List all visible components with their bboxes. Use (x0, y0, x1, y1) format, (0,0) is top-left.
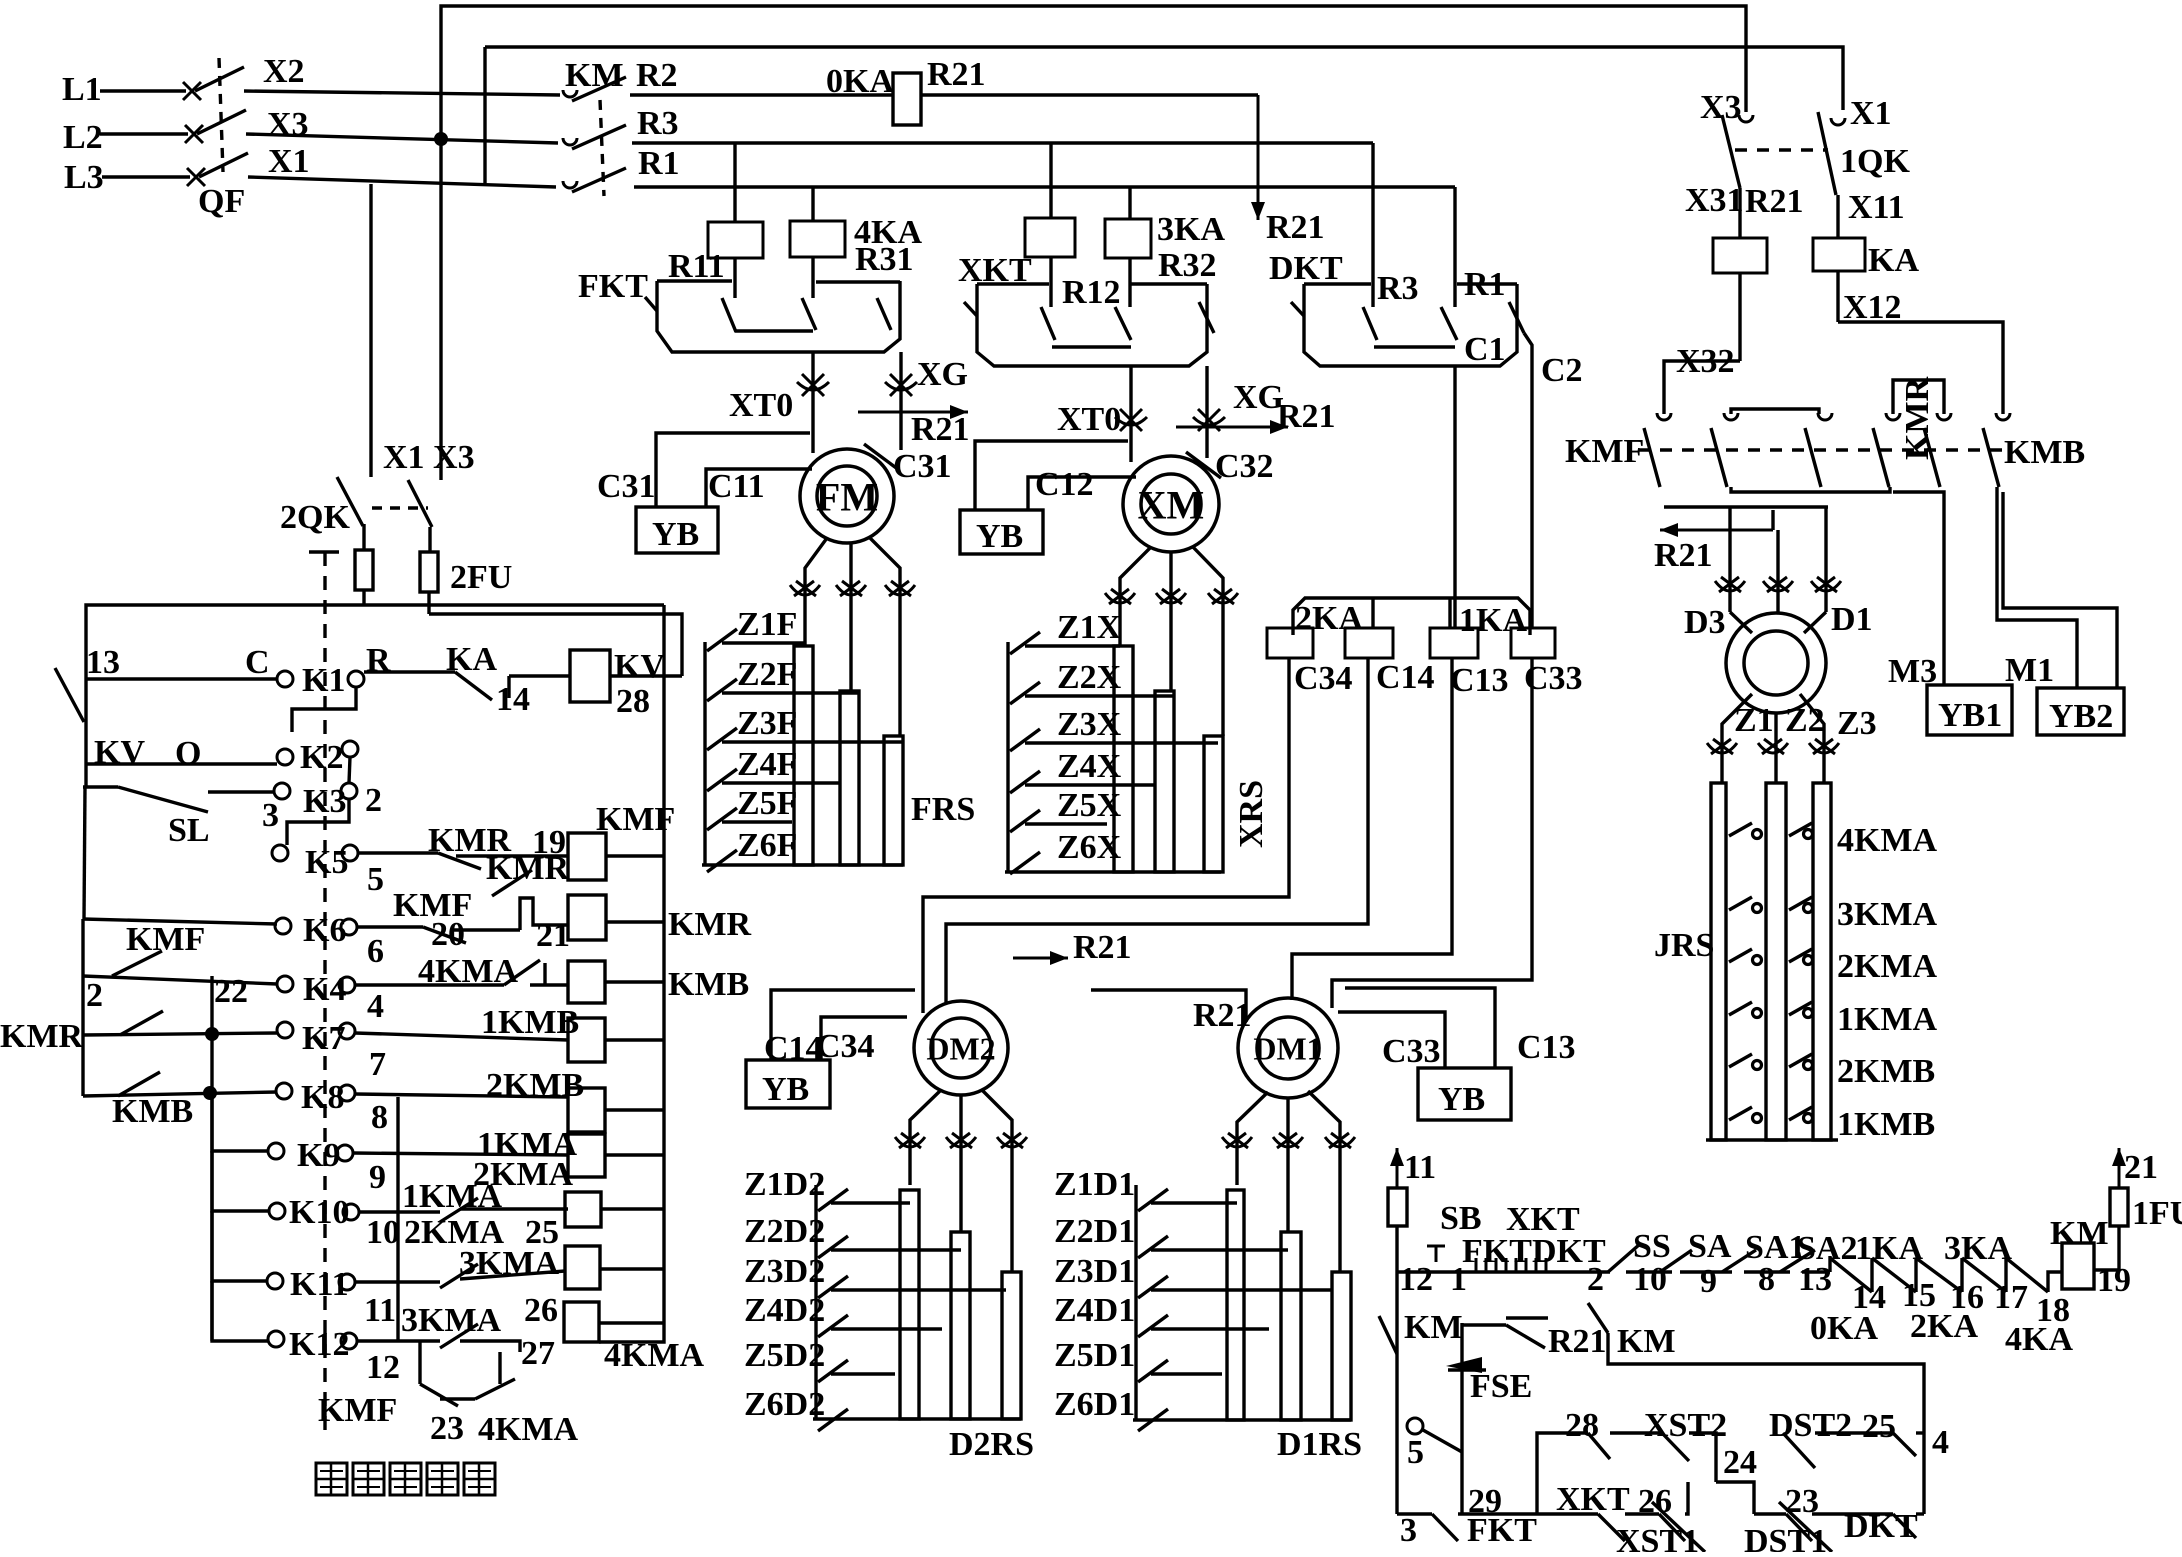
contact Z5F arm (707, 808, 737, 830)
label C13 (DM1) (1517, 1029, 1576, 1066)
contact Z2X arm (1010, 682, 1040, 704)
svg-text:KMF: KMF (318, 1392, 397, 1429)
wire C13 route (1292, 658, 1452, 1000)
wire FM column left (811, 352, 814, 453)
svg-text:O: O (175, 735, 201, 772)
contact KMF arm (K6) (423, 927, 466, 943)
svg-text:20: 20 (431, 916, 465, 953)
brush mark DM2 out (946, 1133, 976, 1148)
label 4KMA (coil) (604, 1337, 705, 1374)
wire R21 branch (1460, 1323, 1463, 1514)
wire K5 out (358, 851, 438, 854)
wire K2 to K3 (349, 757, 350, 783)
contact KMR arm (K5) (438, 853, 481, 869)
svg-text:X3: X3 (267, 106, 309, 143)
contact 3KMA terminal (1753, 904, 1762, 913)
contact DST2 arm (1783, 1433, 1815, 1468)
contactor KMF link dashed (1638, 448, 2010, 451)
wire 26 to 24 (1685, 1482, 1688, 1514)
svg-text:KV: KV (614, 648, 665, 685)
label X11 (1848, 189, 1905, 226)
svg-text:22: 22 (214, 973, 248, 1010)
svg-text:DST2: DST2 (1769, 1407, 1852, 1444)
wire KMB col to YB2 outer (2003, 492, 2117, 688)
resistor JRS col2 (1766, 783, 1786, 1140)
wire C1 column (1453, 366, 1456, 628)
wire XM out3 (1192, 546, 1223, 736)
label X32 (1676, 343, 1735, 380)
contact KMR arm (left) (120, 1011, 163, 1035)
svg-text:YB1: YB1 (1938, 697, 2002, 734)
svg-text:KM: KM (565, 57, 624, 94)
contact Z6F arm (707, 850, 737, 872)
label 28 (616, 683, 650, 720)
label K12 (289, 1326, 349, 1363)
wire Z2F step (722, 691, 858, 694)
brush mark DM1 out (1325, 1133, 1355, 1148)
label K9 (297, 1137, 340, 1174)
label C31 right (FM) (893, 448, 952, 485)
label 4 (br) (1932, 1424, 1949, 1461)
contact Z3D1 arm (1138, 1276, 1168, 1298)
contact SA1 arm (1780, 1250, 1815, 1272)
label Z2D2 (744, 1213, 825, 1250)
wire Z2D1 step (1151, 1248, 1288, 1251)
svg-text:3: 3 (262, 797, 279, 834)
resistor XRS col3 (1204, 736, 1223, 872)
breaker QF pole 2 arm (197, 110, 246, 134)
label KV (coil) (614, 648, 665, 685)
svg-text:2: 2 (365, 782, 382, 819)
label K5 (305, 844, 348, 881)
svg-text:C1: C1 (1464, 331, 1506, 368)
terminal K6 right (341, 919, 357, 935)
label KM (branch) (1404, 1309, 1463, 1346)
wire K7 out (355, 1033, 568, 1040)
relay coil 25 (565, 1192, 601, 1227)
label R3 (DKT) (1377, 270, 1419, 307)
svg-text:5: 5 (1407, 1434, 1424, 1471)
wire after DKT (1626, 1270, 1672, 1273)
svg-text:R21: R21 (1548, 1323, 1607, 1360)
wire bottom row c (1625, 1512, 1659, 1515)
resistor bank JRS bottom (1706, 1138, 1838, 1141)
wire K8 out (355, 1094, 568, 1097)
label L1 (62, 71, 102, 108)
wire C33 route (1332, 658, 1532, 1008)
wire 26 coil stub (600, 1267, 663, 1270)
label XG (XM) (1233, 379, 1284, 416)
relay coil 26 (565, 1246, 600, 1289)
wire R11 coil drop (733, 258, 736, 298)
wire DST2 row (1815, 1431, 1893, 1434)
svg-text:8: 8 (1758, 1261, 1775, 1298)
contact 2KMA arm (1789, 949, 1812, 962)
svg-text:9: 9 (1700, 1263, 1717, 1300)
wire C14 route (946, 658, 1368, 1004)
time relay DKT bracket top-left (1304, 282, 1371, 285)
wire 11 arrow (1390, 1148, 1404, 1188)
contact KMF arm (left) (112, 951, 162, 976)
motor DM2 (914, 1001, 1008, 1095)
svg-text:19: 19 (532, 824, 566, 861)
contact Z5X arm (1010, 810, 1040, 832)
contactor KM pole 2 arm (572, 125, 626, 149)
label C14 (1376, 659, 1435, 696)
svg-text:K9: K9 (297, 1137, 340, 1174)
svg-text:KMB: KMB (2004, 434, 2085, 471)
relay coil C33 (1511, 628, 1555, 658)
svg-text:Z5D1: Z5D1 (1054, 1337, 1135, 1374)
time relay DKT bracket lead (1291, 302, 1304, 316)
svg-text:C14: C14 (1376, 659, 1435, 696)
wire R3 (632, 141, 1373, 144)
wire KMR to K7 (83, 1033, 277, 1035)
svg-text:Z1D1: Z1D1 (1054, 1166, 1135, 1203)
terminal K4 right (339, 977, 355, 993)
label R21 (DM2) (1073, 929, 1132, 966)
wire K4 to KMB coil (530, 983, 568, 986)
svg-text:FM: FM (816, 474, 878, 519)
terminal K3 right (341, 783, 357, 799)
label XG (FM) (917, 356, 968, 393)
wire X2 (244, 91, 560, 95)
resistor JRS col1 (1711, 783, 1726, 1140)
resistor JRS col3 (1813, 783, 1831, 1140)
svg-text:Z2D2: Z2D2 (744, 1213, 825, 1250)
contact XST1 cross (1652, 1502, 1705, 1552)
wire SA1 row (1744, 1270, 1790, 1273)
svg-text:X1: X1 (1850, 95, 1892, 132)
svg-text:3KA: 3KA (1157, 211, 1225, 248)
contact 2KMB arm (1729, 1054, 1752, 1067)
contact 3KA arm (1962, 1258, 2006, 1292)
contact DST1 cross (1779, 1502, 1832, 1552)
label 19 (532, 824, 566, 861)
wire Z3F step (722, 740, 903, 743)
contactor KMB arm (1983, 428, 1999, 487)
time relay DKT contact 1 arm (1363, 307, 1377, 340)
relay coil 1KMA/2KMA (568, 1134, 605, 1177)
terminal K1 left (277, 671, 293, 687)
svg-text:D1: D1 (1831, 601, 1873, 638)
svg-text:C32: C32 (1215, 448, 1274, 485)
contact XST2 arm (1662, 1433, 1689, 1461)
svg-text:Z4F: Z4F (737, 746, 797, 783)
wire D3 in3 (1824, 507, 1827, 612)
resistor XRS col1 (1114, 646, 1133, 872)
wire X3 drop (2QK) (439, 139, 442, 480)
wire X11 (1836, 195, 1839, 238)
terminal K10 left (269, 1203, 285, 1219)
brush mark XM out (1208, 589, 1238, 604)
label SA2 (1797, 1230, 1857, 1267)
label FSE (1470, 1368, 1532, 1405)
wire KMF coil stub (606, 854, 663, 857)
svg-text:KM: KM (2050, 1215, 2109, 1252)
wire D3 in1 (1728, 507, 1731, 612)
contact 25 arm (1893, 1433, 1916, 1456)
wire R21 NC bar (1506, 1316, 1548, 1319)
resistor D2RS col2 (951, 1232, 970, 1419)
wire XM column right (1205, 366, 1208, 458)
label XT0 (XM) (1057, 401, 1121, 438)
wire bottom row (1397, 1512, 1432, 1515)
relay coil 3KA-2 (1105, 219, 1151, 258)
wire Z4F step (722, 781, 839, 784)
label C2 (1541, 352, 1583, 389)
svg-text:YB: YB (762, 1071, 809, 1108)
svg-text:2KA: 2KA (1910, 1308, 1978, 1345)
contactor KM pole 1 arm (572, 77, 626, 101)
label K4 (303, 971, 346, 1008)
contact KMR arm (K6b) (492, 870, 532, 896)
svg-text:Z3D2: Z3D2 (744, 1253, 825, 1290)
wire Z2X step (1025, 694, 1173, 697)
contact 3KMA terminal (1804, 904, 1813, 913)
svg-text:Z6X: Z6X (1057, 829, 1122, 866)
wire X32 route (1664, 361, 1740, 414)
relay coil KMF (568, 833, 606, 880)
label Z3F (737, 705, 797, 742)
wire fuse to 12 (1395, 1226, 1398, 1272)
label 5 (K5) (367, 861, 384, 898)
terminal K4 left (277, 976, 293, 992)
wire 2KMB coil stub (605, 1108, 663, 1111)
svg-text:R21: R21 (911, 411, 970, 448)
wire top frame lower drop (483, 47, 486, 183)
svg-text:2: 2 (86, 977, 103, 1014)
resistor FRS col2 (840, 691, 859, 865)
wire 28 branch (1537, 1433, 1588, 1514)
svg-text:0KA: 0KA (826, 63, 894, 100)
label XRS (1233, 780, 1270, 848)
label 13 (86, 644, 120, 681)
label R3 (637, 105, 679, 142)
svg-text:1FU: 1FU (2132, 1195, 2182, 1232)
time relay FKT bracket lead (645, 297, 657, 311)
label 24 (1723, 1444, 1757, 1481)
wire 1KMB coil stub (605, 1038, 663, 1041)
svg-text:D2RS: D2RS (949, 1426, 1034, 1463)
svg-text:R12: R12 (1062, 274, 1121, 311)
resistor bank FRS bottom (702, 863, 903, 866)
label K8 (301, 1079, 344, 1116)
wire 2QK out1 (362, 524, 365, 550)
label K7 (302, 1020, 345, 1057)
wire KMR col to YB1 (1893, 492, 1944, 685)
label 1KMB (JRS) (1837, 1106, 1935, 1143)
label Z5X (1057, 787, 1122, 824)
label C33 (DM1) (1382, 1033, 1441, 1070)
time relay FKT mid bar (735, 329, 813, 332)
contactor KMR pole 1 terminal (1886, 413, 1900, 420)
svg-text:1KA: 1KA (1459, 602, 1527, 639)
svg-text:2KMA: 2KMA (1837, 948, 1938, 985)
wire Z1X step (1025, 644, 1120, 647)
time relay FKT bracket outline (657, 281, 900, 352)
wire R3 drop (1371, 143, 1374, 307)
label Z3D2 (744, 1253, 825, 1290)
svg-text:XT0: XT0 (729, 387, 793, 424)
label 8 (SA1) (1758, 1261, 1775, 1298)
label KMR (bank) (1899, 376, 1936, 460)
junction K7 (205, 1027, 219, 1041)
label R31 (855, 241, 914, 278)
contactor KMF pole 2 terminal (1724, 413, 1738, 420)
breaker QF pole 1 cross (183, 82, 201, 100)
label 2 (K3) (365, 782, 382, 819)
contact 3KMA arm (K12) (440, 1324, 478, 1348)
wire KMR NC bar (456, 854, 569, 857)
wire C34 route (923, 658, 1289, 1013)
svg-text:JRS: JRS (1654, 927, 1714, 964)
wire Z1D2 step (831, 1201, 910, 1204)
contact 1KA arm (1830, 1258, 1872, 1292)
svg-text:XM: XM (1138, 482, 1205, 527)
contact 4KMA arm (bottom) (475, 1379, 515, 1399)
svg-text:0KA: 0KA (1810, 1310, 1878, 1347)
svg-text:L3: L3 (64, 159, 104, 196)
label SL (168, 812, 210, 849)
label C34 (DM2) (816, 1028, 875, 1065)
label L2 (63, 119, 103, 156)
wire Z3D1 step (1151, 1288, 1333, 1291)
fuse 2FU-1 (355, 550, 373, 590)
wire 28 to XST2 (1610, 1431, 1662, 1434)
label K11 (290, 1266, 349, 1303)
time relay DKT contact 2 arm (1441, 307, 1457, 340)
resistor D1RS col1 (1227, 1190, 1244, 1420)
resistor bank XRS bottom (1005, 870, 1221, 873)
label 2KA (chain) (1910, 1308, 1978, 1345)
wire 2QK out2 (428, 527, 431, 552)
label 20 (431, 916, 465, 953)
wire K6 out (357, 925, 423, 928)
svg-text:R21: R21 (1654, 537, 1713, 574)
label 2FU (450, 559, 512, 596)
label QF (198, 183, 245, 220)
svg-text:Z4D1: Z4D1 (1054, 1292, 1135, 1329)
label KM (seal) (1617, 1323, 1676, 1360)
label KMF (coil) (596, 801, 675, 838)
svg-text:28: 28 (616, 683, 650, 720)
relay coil R11/4KA-1 (708, 222, 763, 258)
label Z6D1 (1054, 1386, 1135, 1423)
label X31 (1685, 182, 1744, 219)
wire SL lead (83, 785, 118, 788)
svg-text:13: 13 (1798, 1261, 1832, 1298)
svg-text:Z4X: Z4X (1057, 748, 1122, 785)
svg-text:7: 7 (369, 1046, 386, 1083)
svg-text:K10: K10 (289, 1194, 349, 1231)
wire D3 out3 (1800, 694, 1824, 783)
label R12 (1062, 274, 1121, 311)
label 12 (1399, 1261, 1433, 1298)
wire DM2 out2 (959, 1095, 962, 1232)
svg-text:4: 4 (367, 988, 384, 1025)
relay coil 27 (564, 1302, 599, 1342)
terminal K5 right (342, 845, 358, 861)
label 17 (1994, 1279, 2028, 1316)
svg-text:8: 8 (371, 1099, 388, 1136)
label Z4D2 (744, 1292, 825, 1329)
svg-text:R1: R1 (638, 145, 680, 182)
brake YB (XM) (960, 510, 1043, 554)
label 0KA (chain) (1810, 1310, 1878, 1347)
wire XM column left (1129, 366, 1132, 462)
contact Z5D2 arm (818, 1360, 848, 1382)
contactor KMR pole 1 arm (1873, 428, 1889, 487)
svg-text:FKT: FKT (1467, 1512, 1537, 1549)
wire FM column right (899, 352, 902, 450)
contact Z4D1 arm (1138, 1315, 1168, 1337)
label KA (K1) (446, 641, 497, 678)
contact 3KMA arm (1789, 897, 1812, 910)
terminal K9 left (268, 1143, 284, 1159)
wire L1 lead (100, 89, 186, 92)
wire XKT coil drop (1049, 257, 1052, 307)
svg-text:2QK: 2QK (280, 499, 350, 536)
label 2 (left) (86, 977, 103, 1014)
terminal K11 left (267, 1273, 283, 1289)
svg-text:Z5F: Z5F (737, 785, 797, 822)
wire bottom row d (1754, 1512, 1786, 1515)
brush mark DM1 out (1273, 1133, 1303, 1148)
label SA (1688, 1228, 1732, 1265)
wire R2 (630, 93, 893, 96)
contact 4KMA terminal (1753, 830, 1762, 839)
svg-text:Z6F: Z6F (737, 827, 797, 864)
label YB1 (1938, 697, 2002, 734)
label Z2 (1785, 702, 1825, 739)
contact 2KMB terminal (1804, 1061, 1813, 1070)
label C (K1) (245, 644, 270, 681)
label XT0 (FM) (729, 387, 793, 424)
label 2KMA (K10) (404, 1214, 505, 1251)
label L3 (64, 159, 104, 196)
svg-text:KM: KM (1617, 1323, 1676, 1360)
slip-ring XG (FM) (885, 374, 917, 396)
label M3 (1888, 653, 1937, 690)
svg-text:11: 11 (364, 1292, 396, 1329)
wire KMB to K8 (83, 1092, 277, 1096)
relay coil KA (1813, 238, 1865, 271)
contact 3KMA arm (1729, 897, 1752, 910)
svg-text:SL: SL (168, 812, 210, 849)
wire fuse2 drop (427, 592, 430, 614)
resistor bank D1RS bottom (1133, 1418, 1351, 1421)
label K3 (303, 783, 346, 820)
fuse-striker FSE (1446, 1357, 1486, 1373)
svg-text:L2: L2 (63, 119, 103, 156)
label KMB (coil) (668, 966, 749, 1003)
label R1 (DKT) (1464, 266, 1506, 303)
wire left bus K4-K7 (81, 976, 84, 1035)
svg-text:YB2: YB2 (2049, 698, 2113, 735)
label C13 (1450, 662, 1509, 699)
brake YB2 (2037, 688, 2124, 735)
svg-text:KMF: KMF (1565, 433, 1644, 470)
svg-text:10: 10 (366, 1214, 400, 1251)
resistor bank D2RS left rail (814, 1185, 817, 1419)
time relay XKT bracket top-left (977, 282, 1049, 285)
brush mark D3 out (1809, 739, 1839, 754)
svg-text:K2: K2 (300, 739, 343, 776)
label X3 (right) (1700, 89, 1742, 126)
contactor KMR pole 2 arm (1924, 428, 1940, 487)
wire Z4D2 step (831, 1327, 942, 1330)
